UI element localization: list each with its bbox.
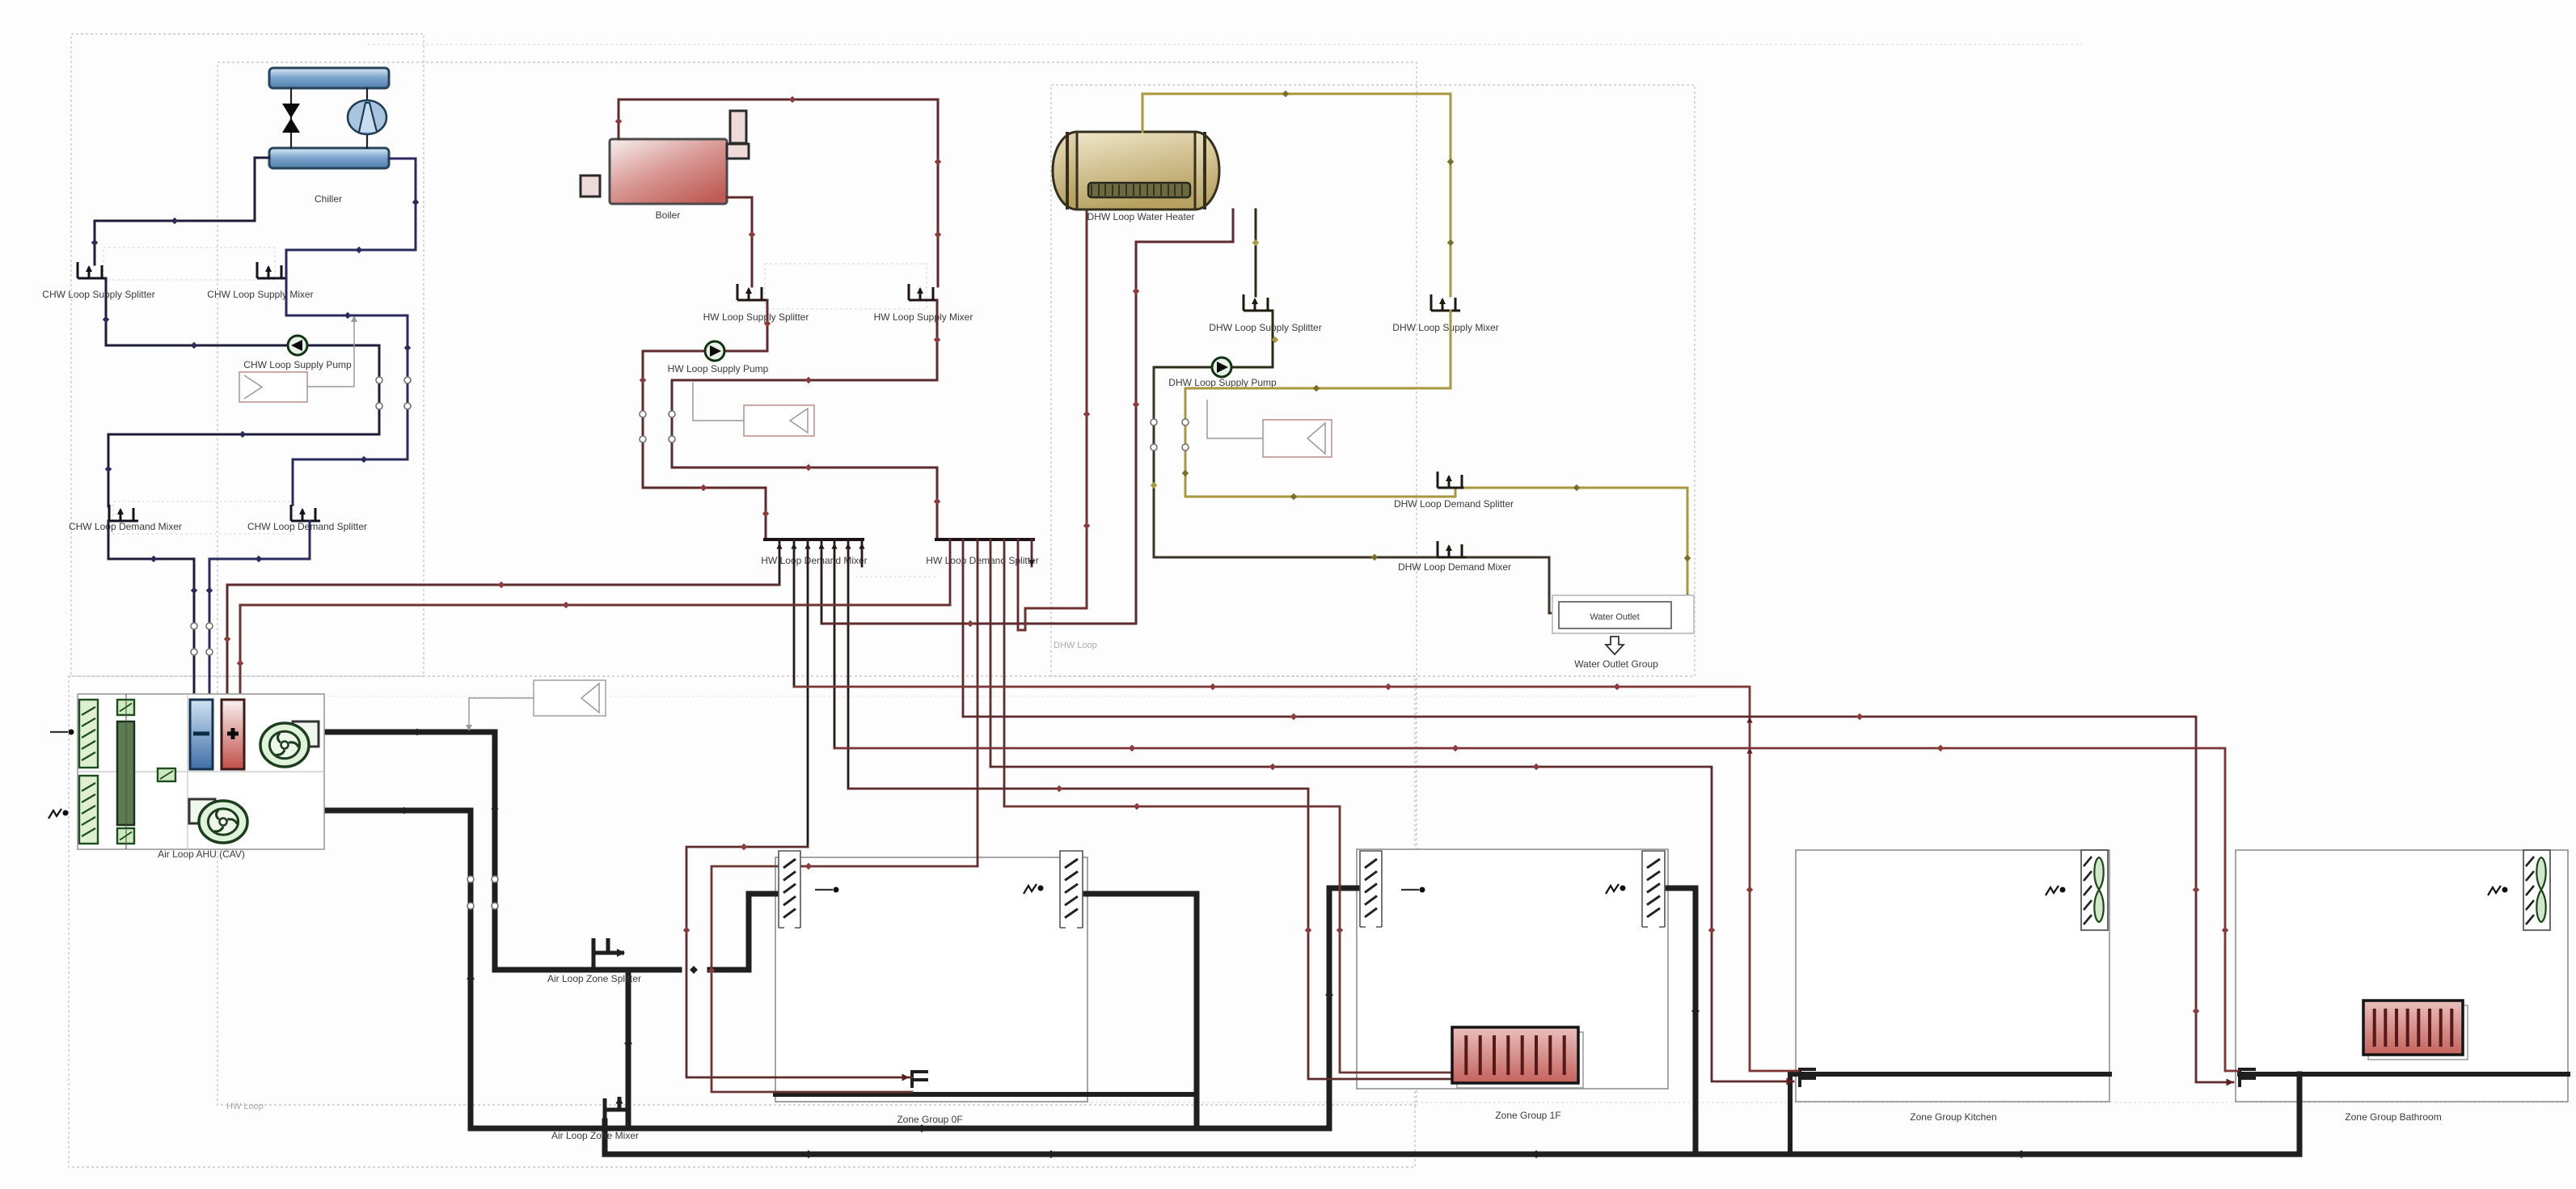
run: AHU heating coil supply y=748	[240, 605, 950, 700]
CHW loop supply pump	[288, 336, 307, 355]
DHW Loop boundary box	[1051, 85, 1695, 676]
return air duct from AHU	[324, 810, 471, 1128]
zone 0F supply arrow	[815, 889, 833, 891]
bathroom radiator	[2368, 1005, 2468, 1060]
run: bathroom radiator supply y=925	[834, 748, 2238, 1071]
zone 0F right diffuser	[1060, 851, 1083, 928]
CHW supply mixer lower line	[286, 278, 408, 505]
svg-text:HW Loop Supply Splitter: HW Loop Supply Splitter	[703, 311, 809, 323]
DHW pump left drop to demand mixer	[1154, 367, 1556, 613]
svg-text:Water Outlet Group: Water Outlet Group	[1574, 658, 1658, 670]
CHW wire chiller to supply splitter	[95, 158, 269, 264]
splitter branch down	[626, 970, 631, 1128]
run: kitchen return y=948	[990, 767, 1793, 1081]
small relief icon	[158, 768, 175, 781]
splitter comb teeth	[949, 539, 952, 605]
svg-text:CHW Loop Supply Mixer: CHW Loop Supply Mixer	[207, 289, 313, 300]
zone 1F left diffuser	[1360, 851, 1382, 927]
zone group Kitchen box	[1796, 850, 2109, 1102]
zone 0F duct connector	[912, 1072, 928, 1088]
svg-text:HW Loop: HW Loop	[226, 1102, 264, 1111]
svg-text:Chiller: Chiller	[315, 193, 342, 205]
Air Loop boundary box	[69, 676, 1415, 1167]
svg-text:CHW Loop Demand Mixer: CHW Loop Demand Mixer	[69, 521, 182, 532]
CHW supply to demand mixer drop	[108, 345, 379, 506]
chiller bottom bar	[269, 148, 389, 168]
svg-text:Zone Group 1F: Zone Group 1F	[1495, 1110, 1560, 1121]
zone 0F return duct	[1085, 894, 1197, 1128]
supply air duct from AHU	[324, 732, 495, 970]
run: AHU heating coil return y=723	[227, 585, 779, 700]
svg-text:DHW Loop Supply Mixer: DHW Loop Supply Mixer	[1392, 322, 1498, 333]
AHU outer box	[78, 694, 324, 849]
duct to zone splitter	[495, 967, 679, 973]
mixer comb teeth	[779, 539, 781, 585]
HW loop supply splitter	[737, 284, 766, 300]
kitchen exhaust fan	[2081, 850, 2108, 930]
zone 1F return squiggle	[1606, 884, 1619, 894]
OA damper upper	[79, 700, 98, 768]
CHW Loop boundary box	[71, 34, 424, 676]
chiller top bar	[269, 68, 389, 88]
zone group 1F box	[1357, 849, 1668, 1089]
zone group Bathroom box	[2236, 850, 2568, 1102]
svg-text:Boiler: Boiler	[656, 209, 681, 221]
OA damper lower	[79, 776, 98, 844]
DHW splitter to pump	[1154, 311, 1273, 367]
svg-text:Air Loop Zone Mixer: Air Loop Zone Mixer	[551, 1130, 639, 1141]
boiler right tab	[727, 144, 749, 159]
boiler left tab	[581, 176, 600, 197]
CHW supply selection dashes	[103, 248, 275, 280]
relief air squiggle	[49, 809, 61, 819]
duct into zone 0F	[710, 894, 779, 970]
zone 1F return duct	[1666, 888, 1696, 1154]
chiller compressor	[366, 88, 368, 148]
svg-text:Zone Group Kitchen: Zone Group Kitchen	[1910, 1111, 1996, 1123]
svg-text:DHW Loop Demand Mixer: DHW Loop Demand Mixer	[1398, 561, 1511, 573]
CHW splitter to pump line	[106, 278, 379, 345]
air loop zone splitter	[593, 938, 624, 970]
bathroom return riser	[2297, 1074, 2303, 1154]
HX top box	[117, 700, 134, 715]
HX bottom box	[117, 828, 134, 844]
HW wire boiler outlet to supply splitter	[727, 197, 752, 286]
zone 0F internal return duct	[775, 1092, 1197, 1097]
DHW mixer lower gold path	[1185, 311, 1455, 497]
CHW loop demand splitter	[291, 505, 320, 521]
boiler body	[610, 139, 727, 204]
svg-text:DHW Loop Supply Pump: DHW Loop Supply Pump	[1168, 377, 1277, 388]
zone 0F left diffuser	[779, 851, 800, 928]
HW wire boiler top to supply mixer	[619, 99, 938, 286]
water outlet group arrow	[1606, 637, 1624, 654]
kitchen fan squiggle	[2046, 886, 2059, 895]
svg-text:HW Loop Supply Mixer: HW Loop Supply Mixer	[874, 311, 973, 323]
cooling coil	[190, 700, 213, 769]
HW pump down to demand mixer comb	[643, 351, 766, 539]
bathroom internal return duct	[2240, 1072, 2568, 1077]
run: zone0F supply y=1071	[712, 866, 978, 1092]
DHW loop supply mixer	[1431, 294, 1460, 311]
HW setpoint manager box	[744, 405, 814, 436]
bathroom fan squiggle	[2488, 886, 2501, 895]
svg-text:Water Outlet: Water Outlet	[1590, 612, 1639, 622]
run: zone0F return y=1047	[686, 847, 912, 1077]
main return duct to zone mixer	[605, 1121, 2299, 1154]
DHW loop supply splitter	[1244, 294, 1273, 311]
heating coil	[222, 700, 244, 769]
svg-text:CHW Loop Demand Splitter: CHW Loop Demand Splitter	[247, 521, 367, 532]
CHW wire supply mixer to chiller	[286, 159, 416, 277]
zone 1F supply arrow	[1401, 889, 1419, 891]
svg-text:DHW Loop: DHW Loop	[1054, 641, 1097, 650]
DHW use-side outlet down to splitter	[1255, 209, 1257, 296]
HW demand selection dashes	[855, 576, 938, 578]
CHW demand splitter to cooling coil	[209, 521, 310, 700]
svg-text:Zone Group 0F: Zone Group 0F	[897, 1114, 962, 1125]
svg-text:DHW Loop Water Heater: DHW Loop Water Heater	[1087, 211, 1195, 222]
run: bathroom radiator return y=886	[963, 717, 2233, 1082]
duct to zone 1F	[471, 888, 1360, 1128]
HW supply selection dashes	[765, 264, 927, 309]
run: kitchen supply y=849	[794, 687, 1798, 1071]
air loop zone mixer	[605, 1097, 627, 1121]
DHW loop demand mixer	[1438, 541, 1467, 557]
gold return into tank top	[1142, 94, 1451, 296]
DHW loop supply pump	[1212, 358, 1231, 377]
Air loop setpoint manager box	[534, 680, 606, 716]
svg-text:CHW Loop Supply Pump: CHW Loop Supply Pump	[243, 359, 352, 370]
HW splitter to pump	[643, 300, 767, 351]
HW loop supply pump	[705, 341, 724, 361]
svg-text:Zone Group Bathroom: Zone Group Bathroom	[2345, 1111, 2441, 1123]
svg-text:HW Loop Demand Splitter: HW Loop Demand Splitter	[926, 555, 1038, 566]
svg-text:DHW Loop Demand Splitter: DHW Loop Demand Splitter	[1394, 498, 1514, 510]
outdoor air arrow	[50, 731, 68, 733]
boiler chimney	[730, 111, 746, 143]
bathroom duct connector	[2240, 1069, 2256, 1087]
DHW demand splitter to water outlet	[1465, 488, 1687, 597]
supply fan	[293, 721, 319, 747]
HW loop demand splitter comb	[936, 538, 1033, 541]
DHW water heater tank	[1077, 132, 1195, 209]
CHW setpoint manager box	[239, 372, 307, 402]
HW loop demand mixer comb	[765, 538, 863, 541]
zone group 0F box	[775, 857, 1087, 1102]
bathroom exhaust fan	[2523, 850, 2550, 930]
CHW loop demand mixer	[109, 505, 138, 521]
HW Loop boundary box	[217, 62, 1417, 1105]
DHW setpoint manager box	[1263, 420, 1332, 457]
svg-text:HW Loop Supply Pump: HW Loop Supply Pump	[668, 363, 769, 374]
run: zone1F radiator supply y=997	[1004, 806, 1452, 1073]
run: tank source supply y=779	[1018, 209, 1087, 630]
svg-text:CHW Loop Supply Splitter: CHW Loop Supply Splitter	[42, 289, 154, 300]
kitchen duct connector	[1800, 1069, 1816, 1087]
CHW demand selection dashes	[113, 501, 294, 534]
HW supply mixer lower path	[672, 300, 937, 539]
zone 1F right diffuser	[1642, 851, 1665, 927]
tank heating element	[1088, 183, 1190, 197]
CHW demand mixer to cooling coil	[108, 521, 194, 700]
DHW loop demand splitter	[1438, 472, 1467, 488]
heat exchanger bar	[117, 721, 134, 825]
svg-text:Air Loop AHU (CAV): Air Loop AHU (CAV)	[158, 848, 245, 860]
zone 1F radiator	[1457, 1032, 1583, 1088]
svg-text:HW Loop Demand Mixer: HW Loop Demand Mixer	[761, 555, 867, 566]
svg-text:Air Loop Zone Splitter: Air Loop Zone Splitter	[547, 973, 641, 984]
run: tank source return y=771	[821, 209, 1233, 624]
CHW loop supply splitter	[78, 262, 107, 278]
zone groups baseline dashed	[368, 44, 2082, 45]
CHW loop supply mixer	[257, 262, 286, 278]
zone 0F return squiggle	[1024, 884, 1037, 894]
HW loop supply mixer	[909, 284, 938, 300]
return fan	[189, 799, 215, 823]
svg-text:DHW Loop Supply Splitter: DHW Loop Supply Splitter	[1209, 322, 1321, 333]
chiller expansion valve	[290, 88, 292, 148]
kitchen return duct	[1790, 1074, 2109, 1154]
water outlet box	[1552, 595, 1694, 633]
run: zone1F radiator return y=975	[848, 789, 1452, 1079]
